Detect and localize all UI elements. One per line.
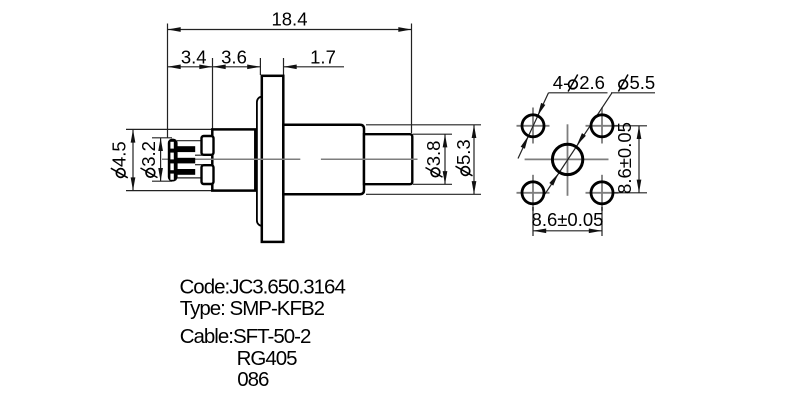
svg-text:3.2: 3.2	[138, 141, 159, 167]
svg-text:8.6±0.05: 8.6±0.05	[614, 122, 635, 194]
svg-text:Code:JC3.650.3164: Code:JC3.650.3164	[180, 276, 346, 299]
svg-text:2.6: 2.6	[579, 72, 605, 93]
svg-text:4.5: 4.5	[108, 141, 129, 167]
svg-text:18.4: 18.4	[271, 9, 307, 30]
svg-text:3.6: 3.6	[221, 47, 247, 68]
svg-text:086: 086	[237, 368, 269, 391]
svg-text:3.8: 3.8	[423, 141, 444, 167]
svg-text:5.5: 5.5	[630, 72, 656, 93]
svg-text:Cable:SFT-50-2: Cable:SFT-50-2	[180, 325, 311, 348]
svg-text:Type: SMP-KFB2: Type: SMP-KFB2	[180, 297, 325, 320]
svg-text:5.3: 5.3	[453, 139, 474, 165]
svg-text:RG405: RG405	[237, 347, 298, 370]
svg-text:4-: 4-	[553, 72, 569, 93]
svg-text:1.7: 1.7	[310, 47, 336, 68]
svg-text:8.6±0.05: 8.6±0.05	[532, 209, 604, 230]
svg-text:3.4: 3.4	[181, 47, 207, 68]
